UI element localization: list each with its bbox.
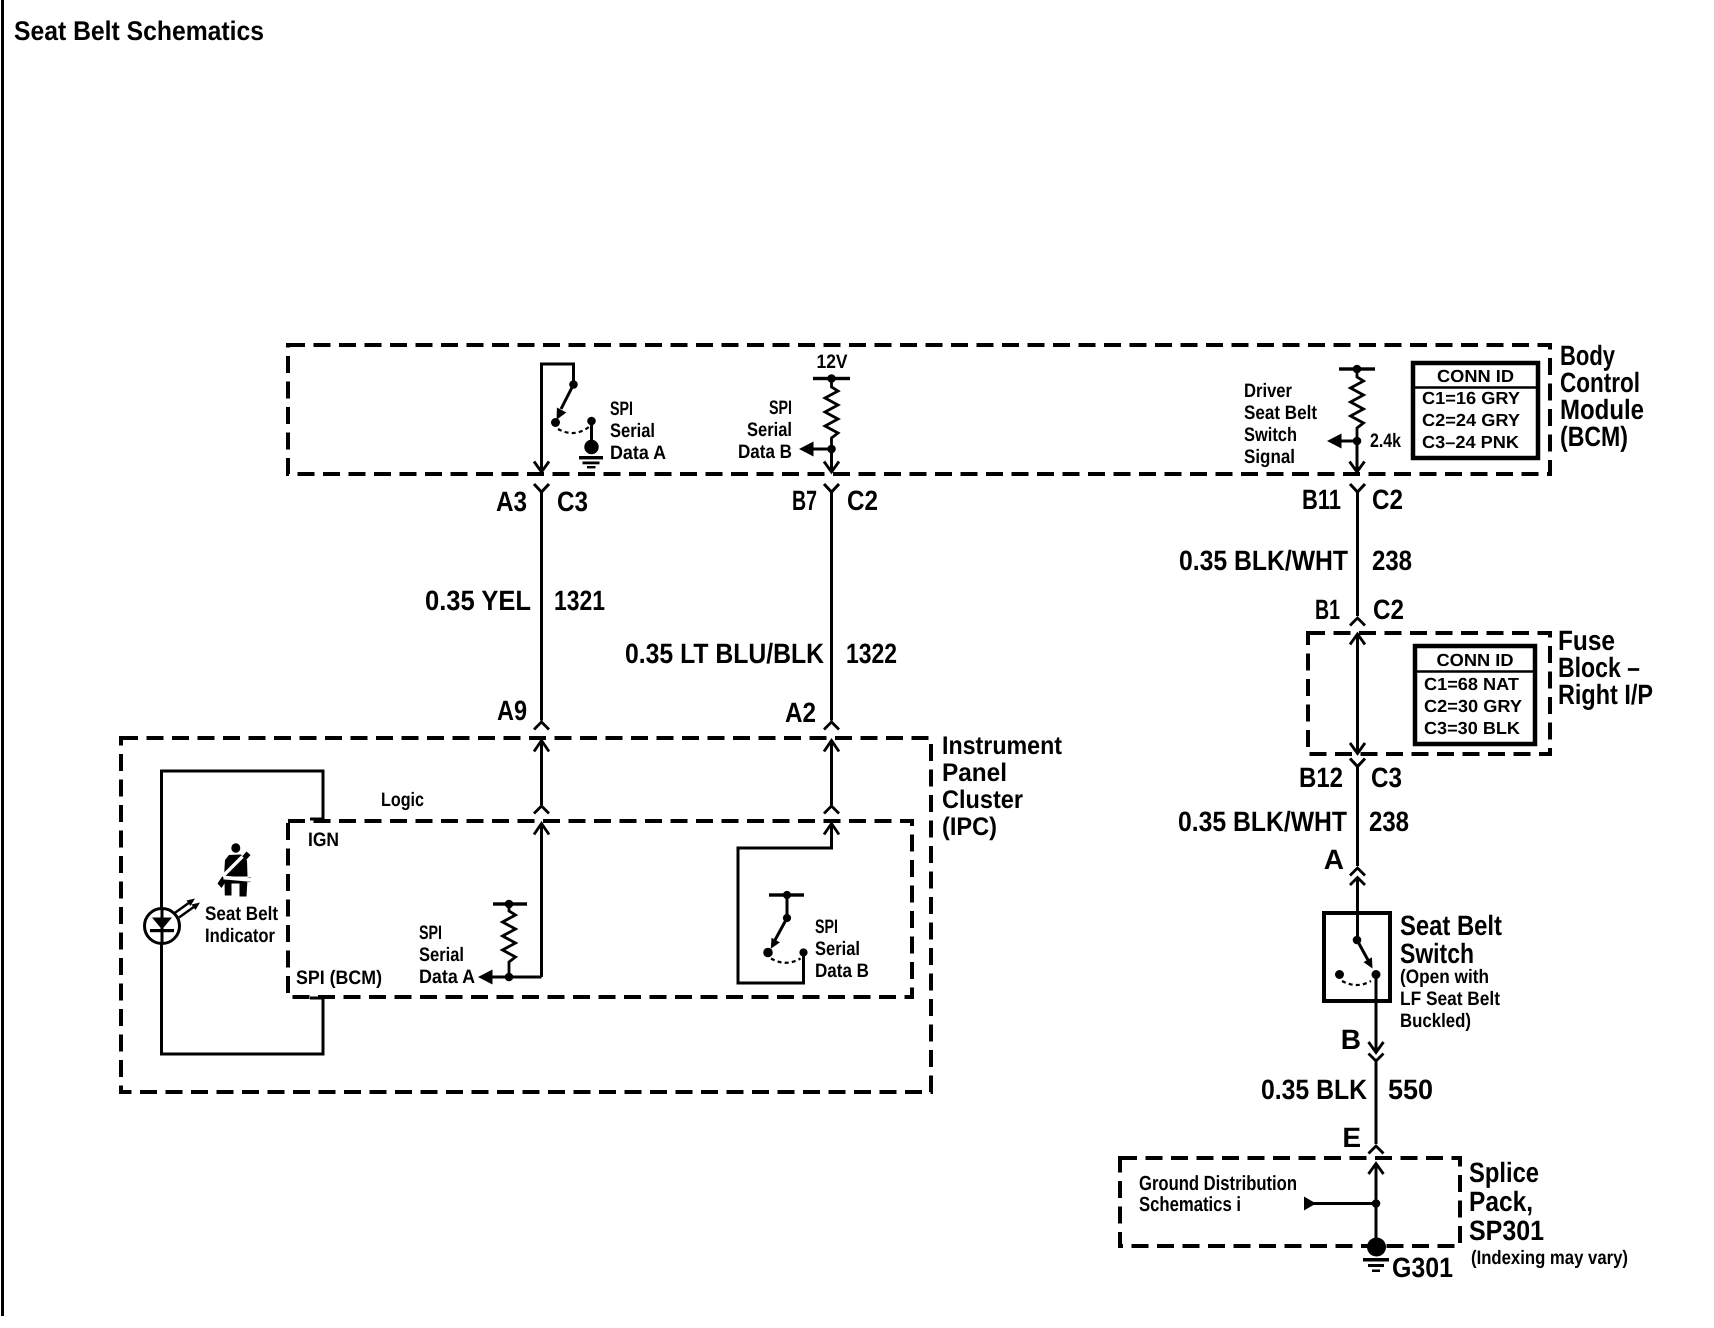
- svg-text:B11: B11: [1302, 484, 1341, 515]
- Fuse Block box: [1308, 633, 1550, 754]
- rail bar above resistor 2.4k: [1339, 365, 1375, 374]
- svg-text:C3–24 PNK: C3–24 PNK: [1422, 432, 1519, 452]
- resistor (BCM pull-up B7): [825, 380, 838, 449]
- svg-text:SPI: SPI: [815, 916, 838, 938]
- svg-text:A: A: [1324, 844, 1344, 875]
- IPC label: [942, 732, 1062, 841]
- svg-text:C1=68 NAT: C1=68 NAT: [1424, 674, 1519, 694]
- svg-text:Serial: Serial: [815, 938, 860, 960]
- connector B7/C2: [824, 484, 839, 721]
- reference arrow to ground distribution: [1304, 1197, 1380, 1211]
- svg-text:CONN ID: CONN ID: [1437, 650, 1514, 670]
- wire indicator loop: [162, 771, 324, 1054]
- svg-text:1322: 1322: [846, 638, 897, 669]
- svg-text:2.4k: 2.4k: [1370, 430, 1401, 452]
- svg-text:Schematics i: Schematics i: [1139, 1193, 1241, 1216]
- wire entry into Logic box (A2): [824, 806, 839, 835]
- wire entry into splice pack: [1369, 1164, 1384, 1241]
- svg-text:Splice: Splice: [1469, 1157, 1539, 1188]
- Logic box: [288, 821, 912, 997]
- svg-text:0.35 YEL: 0.35 YEL: [425, 585, 531, 616]
- svg-text:B1: B1: [1315, 594, 1340, 625]
- Splice Pack labels: [1469, 1157, 1628, 1269]
- BCM CONN ID table: [1413, 363, 1538, 458]
- svg-text:C3: C3: [1371, 762, 1402, 793]
- node / arrow Driver Seat Belt Switch Signal: [1327, 434, 1361, 449]
- wire label 0.35 YEL 1321: [425, 585, 605, 616]
- label SPI Serial Data A (IPC): [419, 922, 475, 988]
- svg-text:Indicator: Indicator: [205, 925, 275, 947]
- wire label 0.35 BLK 550: [1261, 1074, 1433, 1105]
- svg-text:Data A: Data A: [419, 966, 475, 988]
- svg-text:LF Seat Belt: LF Seat Belt: [1400, 988, 1500, 1010]
- label SPI Serial Data A (BCM): [610, 398, 666, 464]
- svg-text:A2: A2: [785, 697, 816, 728]
- LED light rays: [174, 901, 197, 918]
- svg-text:Panel: Panel: [942, 759, 1007, 787]
- wire label 0.35 BLK/WHT 238 (lower): [1178, 806, 1409, 837]
- svg-text:(BCM): (BCM): [1560, 421, 1628, 452]
- in-line connector B: [1369, 1042, 1384, 1144]
- svg-text:Data A: Data A: [610, 442, 666, 464]
- wire label 0.35 LT BLU/BLK 1322: [625, 638, 897, 669]
- connector B1/C2: [1350, 618, 1365, 626]
- svg-text:C2: C2: [847, 485, 878, 516]
- svg-text:0.35 BLK/WHT: 0.35 BLK/WHT: [1179, 545, 1348, 576]
- connector A3/C3: [534, 484, 549, 721]
- IPC box: [121, 738, 931, 1092]
- svg-text:Switch: Switch: [1244, 424, 1297, 446]
- Splice Pack box: [1120, 1158, 1460, 1246]
- seat belt person icon: [218, 843, 253, 896]
- wire + arrow out of BCM at B7: [824, 449, 839, 472]
- svg-text:238: 238: [1369, 806, 1409, 837]
- svg-text:B7: B7: [792, 485, 817, 516]
- wire entry into IPC at A2: [824, 722, 839, 805]
- svg-text:0.35 LT BLU/BLK: 0.35 LT BLU/BLK: [625, 638, 824, 669]
- ground (BCM internal): [579, 440, 603, 469]
- svg-text:SPI: SPI: [769, 397, 792, 419]
- svg-text:(Indexing may vary): (Indexing may vary): [1471, 1247, 1628, 1269]
- switch Seat Belt Switch: [1335, 915, 1381, 1051]
- fuse block CONN ID table: [1415, 646, 1535, 744]
- 12V rail bar: [813, 374, 850, 383]
- wire + arrow out of BCM at B11: [1350, 441, 1365, 472]
- svg-text:Driver: Driver: [1244, 380, 1292, 402]
- switch SPI Serial Data B (IPC): [763, 891, 807, 963]
- svg-text:1321: 1321: [554, 585, 605, 616]
- svg-text:Serial: Serial: [419, 944, 464, 966]
- svg-text:C3: C3: [557, 486, 588, 517]
- resistor SPI Serial Data A (IPC): [493, 900, 527, 982]
- svg-text:SP301: SP301: [1469, 1215, 1544, 1246]
- svg-text:Seat Belt Schematics: Seat Belt Schematics: [14, 16, 264, 46]
- wire entry into Logic box: [534, 806, 549, 977]
- svg-text:A3: A3: [496, 486, 527, 517]
- svg-text:B12: B12: [1299, 762, 1343, 793]
- connector B12/C3: [1350, 759, 1365, 867]
- svg-text:Pack,: Pack,: [1469, 1186, 1533, 1217]
- connector E chevron: [1369, 1146, 1384, 1154]
- svg-text:Buckled): Buckled): [1400, 1010, 1471, 1032]
- Fuse Block label: [1558, 625, 1653, 710]
- svg-text:0.35 BLK/WHT: 0.35 BLK/WHT: [1178, 806, 1347, 837]
- BCM label: [1560, 340, 1644, 452]
- svg-text:Cluster: Cluster: [942, 786, 1023, 814]
- svg-text:238: 238: [1372, 545, 1412, 576]
- svg-text:C2=24 GRY: C2=24 GRY: [1422, 410, 1520, 430]
- wire entry into IPC at A9: [534, 722, 549, 805]
- svg-text:Serial: Serial: [610, 420, 655, 442]
- Seat Belt Switch labels: [1400, 910, 1502, 1032]
- arrow out of BCM at A3: [534, 462, 549, 473]
- svg-text:Serial: Serial: [747, 419, 792, 441]
- svg-text:C2: C2: [1373, 594, 1404, 625]
- wire through fuse block: [1350, 634, 1365, 754]
- svg-text:Logic: Logic: [381, 789, 424, 811]
- label SPI Serial Data B (BCM): [738, 397, 792, 463]
- svg-text:C2: C2: [1372, 484, 1403, 515]
- label Driver Seat Belt Switch Signal: [1244, 380, 1317, 468]
- svg-text:(Open with: (Open with: [1400, 966, 1489, 988]
- node / arrow SPI Serial Data B (BCM): [799, 442, 836, 457]
- wire L to Data B switch: [738, 824, 832, 984]
- ground G301: [1363, 1238, 1389, 1273]
- svg-text:Seat Belt: Seat Belt: [1400, 910, 1502, 941]
- svg-text:0.35 BLK: 0.35 BLK: [1261, 1074, 1367, 1105]
- wire label 0.35 BLK/WHT 238: [1179, 545, 1412, 576]
- page edge line: [1, 0, 4, 1316]
- svg-text:C3=30 BLK: C3=30 BLK: [1424, 718, 1520, 738]
- BCM box: [288, 345, 1550, 474]
- svg-text:(IPC): (IPC): [942, 813, 997, 841]
- svg-text:Instrument: Instrument: [942, 732, 1062, 760]
- svg-text:SPI: SPI: [419, 922, 442, 944]
- svg-text:A9: A9: [497, 695, 527, 726]
- svg-text:Signal: Signal: [1244, 446, 1295, 468]
- svg-text:Right I/P: Right I/P: [1558, 679, 1653, 710]
- svg-text:B: B: [1341, 1024, 1361, 1055]
- svg-text:Switch: Switch: [1400, 938, 1474, 969]
- connector B11/C2: [1350, 484, 1365, 616]
- LED Seat Belt Indicator: [145, 909, 180, 944]
- switch SPI Serial Data A (BCM): [542, 364, 592, 472]
- svg-text:C2=30 GRY: C2=30 GRY: [1424, 696, 1522, 716]
- svg-text:CONN ID: CONN ID: [1437, 366, 1514, 386]
- svg-text:C1=16 GRY: C1=16 GRY: [1422, 388, 1520, 408]
- svg-text:Seat Belt: Seat Belt: [1244, 402, 1317, 424]
- svg-text:Ground Distribution: Ground Distribution: [1139, 1172, 1297, 1195]
- svg-text:Data B: Data B: [815, 960, 869, 982]
- svg-text:Seat Belt: Seat Belt: [205, 903, 278, 925]
- resistor 2.4k: [1351, 370, 1364, 441]
- in-line connector A: [1350, 868, 1365, 913]
- svg-text:E: E: [1342, 1122, 1361, 1153]
- svg-text:IGN: IGN: [308, 829, 339, 851]
- svg-text:G301: G301: [1392, 1252, 1453, 1283]
- svg-text:SPI: SPI: [610, 398, 633, 420]
- label Seat Belt Indicator: [205, 903, 278, 947]
- svg-text:Data B: Data B: [738, 441, 792, 463]
- label SPI Serial Data B (IPC): [815, 916, 869, 982]
- svg-text:550: 550: [1388, 1074, 1433, 1105]
- svg-text:SPI (BCM): SPI (BCM): [296, 967, 382, 989]
- svg-text:12V: 12V: [817, 351, 848, 373]
- label Ground Distribution Schematics: [1139, 1172, 1297, 1216]
- Seat Belt Switch box: [1324, 913, 1390, 1001]
- wire / arrow SPI Serial Data A (IPC): [478, 970, 542, 985]
